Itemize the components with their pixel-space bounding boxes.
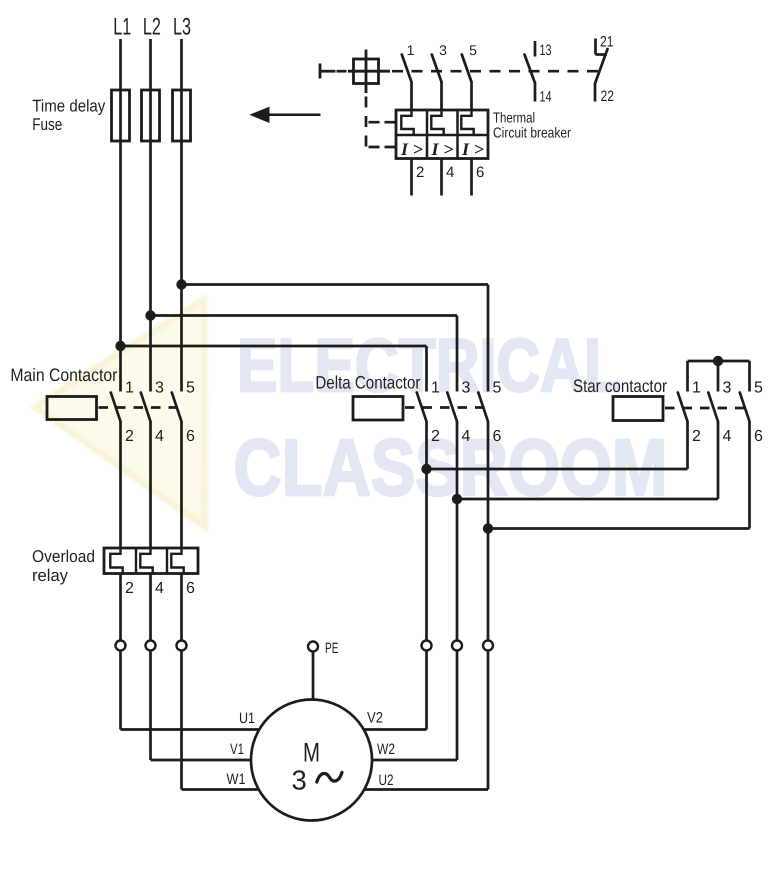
motor terminal label V2	[367, 710, 383, 727]
terminal circle W2	[452, 641, 462, 651]
svg-text:L2: L2	[143, 14, 161, 41]
star contactor contact 1-2	[678, 380, 701, 446]
svg-text:4: 4	[155, 428, 164, 445]
svg-text:6: 6	[493, 428, 502, 445]
overload heater 3	[171, 548, 183, 574]
svg-text:2: 2	[125, 580, 134, 597]
wire PE to motor	[312, 652, 315, 701]
junction dot delta-star 4	[452, 494, 462, 504]
wire delta pole1 down	[425, 422, 428, 641]
main contactor contact 5-6	[172, 380, 195, 446]
svg-text:3: 3	[155, 380, 164, 397]
junction dot delta-star 2	[421, 464, 431, 474]
wire terminal to motor V2	[364, 651, 427, 730]
wire L3 to delta pole 5	[182, 285, 489, 392]
motor M1 circle	[251, 700, 372, 821]
wire L2 to delta pole 3	[151, 316, 458, 392]
overload pin 4	[155, 580, 164, 597]
svg-text:ELECTRICAL: ELECTRICAL	[237, 323, 621, 407]
star bus junction dot	[713, 356, 723, 366]
svg-text:6: 6	[186, 580, 195, 597]
svg-text:5: 5	[754, 380, 763, 397]
junction dot L1	[115, 341, 125, 351]
svg-text:14: 14	[540, 89, 552, 106]
svg-text:1: 1	[431, 380, 440, 397]
label Star contactor	[573, 376, 667, 396]
overload heater 2	[140, 548, 152, 574]
svg-text:2: 2	[431, 428, 440, 445]
label Overload relay	[32, 547, 95, 585]
wire star pole6 link	[488, 422, 750, 529]
breaker manual operator handle	[320, 64, 336, 79]
wire main contactor to overload L1	[119, 422, 122, 549]
wire delta pole5 down	[487, 422, 490, 641]
svg-text:L1: L1	[113, 14, 131, 41]
wire star pole2 link	[427, 422, 688, 470]
wire terminal to motor W2	[372, 651, 457, 761]
delta contactor contact 1-2	[417, 380, 440, 446]
wire overload to terminal U1	[119, 574, 122, 641]
svg-text:4: 4	[446, 164, 454, 181]
fuse F1	[112, 90, 130, 141]
svg-text:4: 4	[723, 428, 732, 445]
fuse F3	[173, 90, 191, 141]
motor terminal label U1	[239, 710, 255, 727]
wire star pole4 link	[457, 422, 718, 500]
svg-text:Thermal: Thermal	[493, 111, 535, 127]
svg-text:13: 13	[540, 42, 552, 59]
breaker contact pole 5	[462, 42, 477, 110]
wire terminal to motor U1	[121, 651, 260, 730]
svg-text:1: 1	[125, 380, 134, 397]
breaker heater element 2	[431, 110, 443, 135]
svg-text:6: 6	[186, 428, 195, 445]
delta contactor linkage	[403, 406, 491, 409]
breaker control dashed linkage	[337, 70, 602, 73]
delta contactor contact 3-4	[447, 380, 470, 446]
svg-text:I >: I >	[430, 139, 453, 159]
svg-text:1: 1	[692, 380, 701, 397]
svg-text:W2: W2	[377, 741, 395, 758]
wire L3 vertical feed	[180, 39, 183, 392]
breaker contact pole 3	[432, 42, 447, 110]
svg-text:Time delay: Time delay	[32, 97, 105, 116]
star point bus	[688, 361, 750, 392]
svg-text:L3: L3	[173, 14, 191, 41]
node L2 label	[143, 14, 161, 41]
motor terminal label W1	[227, 771, 246, 788]
svg-text:3: 3	[723, 380, 732, 397]
svg-text:I >: I >	[400, 139, 423, 159]
motor terminal label U2	[379, 772, 394, 789]
overload pin 2	[125, 580, 134, 597]
star contactor contact 3-4	[708, 380, 731, 446]
wire terminal to motor V1	[151, 651, 252, 761]
svg-text:V2: V2	[367, 710, 383, 727]
svg-text:M: M	[303, 738, 320, 768]
star contactor contact 5-6	[740, 380, 763, 446]
svg-text:2: 2	[692, 428, 701, 445]
wire overload to terminal W1	[180, 574, 183, 641]
svg-text:6: 6	[476, 164, 484, 181]
breaker heater element 3	[461, 110, 473, 135]
breaker heater element 1	[401, 110, 413, 135]
breaker I> label 3	[461, 139, 484, 159]
terminal circle V1	[146, 641, 156, 651]
svg-text:5: 5	[186, 380, 195, 397]
node L1 label	[113, 14, 131, 41]
callout arrow	[249, 107, 320, 123]
svg-text:4: 4	[155, 580, 164, 597]
main contactor contact 3-4	[141, 380, 164, 446]
label Delta Contactor	[315, 373, 420, 393]
svg-text:I >: I >	[461, 139, 484, 159]
motor terminal label W2	[377, 741, 395, 758]
wire L1 to delta pole 1	[121, 346, 427, 392]
motor label M	[303, 738, 320, 768]
label Time delay Fuse	[32, 97, 105, 135]
svg-text:W1: W1	[227, 771, 246, 788]
junction dot L2	[145, 310, 155, 320]
breaker pin 2	[412, 159, 425, 196]
svg-text:Circuit breaker: Circuit breaker	[493, 126, 571, 142]
motor label 3	[292, 765, 307, 796]
svg-text:Star contactor: Star contactor	[573, 376, 667, 396]
terminal circle PE	[308, 642, 318, 652]
svg-text:Fuse: Fuse	[32, 115, 62, 134]
wire L1 vertical feed	[119, 39, 122, 392]
wire terminal to motor U2	[364, 651, 488, 790]
svg-text:relay: relay	[32, 566, 68, 585]
breaker thermal element box	[396, 110, 488, 159]
wire L2 vertical feed	[149, 39, 152, 392]
main contactor linkage	[97, 406, 185, 409]
svg-text:Overload: Overload	[32, 547, 95, 566]
wire main contactor to overload L3	[180, 422, 183, 549]
label PE	[325, 640, 339, 657]
terminal circle U2	[483, 641, 493, 651]
junction dot L3	[176, 279, 186, 289]
main contactor contact 1-2	[111, 380, 134, 446]
wire delta pole3 down	[456, 422, 459, 641]
delta contactor coil	[353, 397, 403, 421]
breaker aux contact 21-22	[595, 34, 614, 106]
breaker aux contact 13-14	[525, 41, 552, 106]
breaker manual operator square	[348, 50, 390, 94]
label Main Contactor	[10, 365, 117, 385]
breaker contact pole 1	[402, 42, 415, 110]
label Thermal Circuit breaker	[493, 111, 571, 142]
overload relay box	[104, 548, 198, 574]
overload pin 6	[186, 580, 195, 597]
svg-text:1: 1	[407, 42, 415, 58]
breaker I> label 2	[430, 139, 453, 159]
breaker pin 4	[442, 159, 455, 196]
junction dot delta-star 6	[483, 523, 493, 533]
motor terminal label V1	[230, 741, 244, 758]
main contactor coil	[47, 397, 97, 420]
fuse F2	[142, 90, 160, 141]
wire main contactor to overload L2	[149, 422, 152, 549]
motor tilde symbol	[317, 772, 342, 782]
breaker pin 6	[472, 159, 485, 196]
svg-text:Delta Contactor: Delta Contactor	[315, 373, 420, 393]
delta contactor contact 5-6	[478, 380, 501, 446]
star contactor coil	[613, 397, 663, 421]
wire overload to terminal V1	[149, 574, 152, 641]
svg-text:3: 3	[462, 380, 471, 397]
svg-text:V1: V1	[230, 741, 244, 758]
svg-text:3: 3	[292, 765, 307, 796]
svg-text:U1: U1	[239, 710, 255, 727]
breaker I> label 1	[400, 139, 423, 159]
svg-text:6: 6	[754, 428, 763, 445]
terminal circle W1	[177, 641, 187, 651]
star contactor linkage	[663, 407, 752, 410]
svg-text:5: 5	[469, 42, 477, 58]
overload heater 1	[110, 548, 122, 574]
svg-text:U2: U2	[379, 772, 394, 789]
svg-text:PE: PE	[325, 640, 339, 657]
breaker trip dashed linkage vertical	[366, 93, 396, 148]
svg-text:2: 2	[416, 164, 424, 181]
svg-text:4: 4	[462, 428, 471, 445]
terminal circle V2	[422, 641, 432, 651]
node L3 label	[173, 14, 191, 41]
terminal circle U1	[116, 641, 126, 651]
svg-text:3: 3	[439, 42, 447, 58]
wire terminal to motor W1	[182, 651, 259, 790]
svg-text:21: 21	[600, 34, 614, 51]
svg-text:22: 22	[601, 88, 615, 105]
svg-text:5: 5	[493, 380, 502, 397]
svg-text:Main Contactor: Main Contactor	[10, 365, 117, 385]
svg-text:2: 2	[125, 428, 134, 445]
